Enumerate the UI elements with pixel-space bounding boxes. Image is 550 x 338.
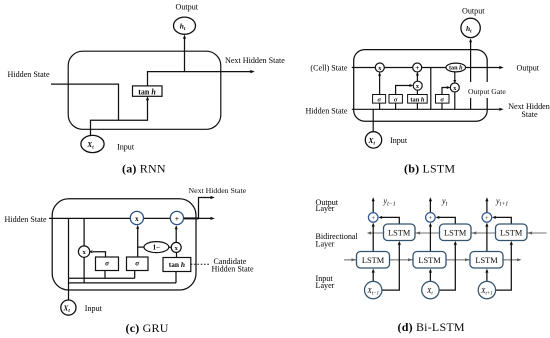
wire 1-minus to x cand (169, 246, 171, 248)
wire sigma2 to x mid (396, 86, 411, 95)
arrowhead into x reset (89, 250, 93, 253)
svg-text:+: + (485, 215, 489, 222)
arrowhead hidden out (211, 217, 215, 220)
svg-text:+: + (415, 64, 419, 72)
arrowhead into h_t (469, 38, 472, 42)
svg-text:σ: σ (377, 96, 381, 103)
svg-text:1−: 1− (153, 244, 161, 252)
wire hidden-state into box with down jog (51, 84, 119, 120)
wire sigma3 to x right (442, 88, 448, 95)
wire plus to output (372, 200, 374, 213)
arrowhead into plus (175, 225, 178, 229)
wire h_t tap (470, 41, 472, 109)
LSTM cell box (354, 50, 488, 122)
svg-text:x: x (135, 215, 139, 223)
svg-text:(c) GRU: (c) GRU (126, 321, 169, 335)
wire branch to 1-minus (138, 246, 145, 248)
X_t node (61, 300, 76, 315)
wire x right down (454, 92, 456, 110)
svg-text:Output: Output (176, 2, 199, 11)
svg-text:Input: Input (117, 142, 135, 151)
text mask (466, 82, 505, 98)
GRU cell box (52, 199, 196, 290)
wire x cand up to plus (175, 227, 177, 242)
svg-text:Layer: Layer (316, 204, 335, 213)
svg-text:Hidden State: Hidden State (8, 70, 50, 79)
svg-text:tan h: tan h (138, 88, 156, 97)
wire bus A up to sigma2 (134, 271, 136, 279)
wire bus B up to tanh (175, 272, 177, 283)
arrowhead into x mid (410, 84, 414, 87)
plus node 3 (482, 213, 492, 223)
arrowhead into h_t (183, 35, 186, 39)
x cand circle (171, 242, 181, 252)
arrowheads gray into backward boxes (416, 231, 420, 234)
wire backward LSTM to plus (381, 217, 400, 224)
tanh ellipse gate (446, 63, 466, 72)
wire bus A up to sigma1 (104, 271, 106, 279)
X_t node (422, 281, 439, 298)
arrowheads gray into forward boxes (352, 258, 356, 261)
svg-text:(a) RNN: (a) RNN (122, 161, 166, 175)
svg-text:Input: Input (85, 304, 103, 313)
wire x reset down to bus B (83, 257, 85, 283)
arrowhead into tanh (146, 96, 149, 100)
forward layer line (gray) (344, 259, 519, 261)
X_{t+1} node (478, 281, 495, 298)
wire hidden state line (352, 108, 501, 110)
wire X_t input (372, 109, 374, 131)
arrowhead next hidden (499, 108, 503, 111)
wire thick output segment (184, 217, 200, 219)
forward LSTM box 2 (413, 252, 446, 269)
arrowhead into plus (416, 72, 419, 76)
wire x mid to plus (416, 74, 418, 81)
arrowhead next hidden (211, 196, 215, 199)
arrowhead into x update (136, 225, 139, 229)
wire X to forward LSTM (486, 271, 488, 281)
wire sigma1 to x reset (93, 252, 106, 257)
wire cell state line (352, 67, 501, 69)
wire sigma1 down (379, 103, 381, 109)
svg-text:tan h: tan h (449, 65, 463, 72)
svg-text:Layer: Layer (316, 240, 335, 249)
x reset circle (78, 246, 89, 257)
svg-text:LSTM: LSTM (388, 228, 411, 237)
svg-text:Hidden State: Hidden State (212, 265, 254, 274)
wire sigma2 up to x update (137, 227, 139, 258)
sigma2 box (389, 95, 402, 104)
svg-text:LSTM: LSTM (500, 228, 523, 237)
wire sigma3 down (441, 103, 443, 109)
wire bottom horizontal to tanh (91, 99, 148, 136)
h_t node (461, 18, 480, 37)
dashed candidate pointer (191, 263, 210, 265)
x update circle (blue) (130, 211, 143, 224)
arrowhead cell output (499, 66, 503, 69)
sigma1 box (373, 95, 386, 104)
wire tanh up to x cand (176, 252, 178, 257)
svg-text:Output: Output (462, 6, 485, 15)
plus node 2 (426, 213, 436, 223)
wire hidden tap to x reset (83, 218, 85, 246)
wire hidden state line (49, 217, 212, 219)
svg-text:Hidden State: Hidden State (305, 106, 347, 115)
wire bus B (69, 282, 177, 284)
svg-text:LSTM: LSTM (362, 256, 385, 265)
wire tanh ellipse to x right (454, 72, 456, 81)
wire bus A (69, 277, 135, 279)
backward LSTM box 3 (496, 224, 528, 241)
tanh box (408, 95, 428, 104)
svg-text:tan h: tan h (410, 96, 424, 103)
arrowhead down into x right (453, 80, 456, 83)
X_{t-1} node (365, 281, 382, 298)
wire X to forward LSTM (429, 271, 431, 281)
plus node 1 (368, 213, 378, 223)
x right circle (450, 83, 459, 92)
forward LSTM box 3 (470, 252, 503, 269)
sigma3 box (436, 95, 450, 104)
svg-text:+: + (175, 214, 179, 223)
sigma2 box (127, 257, 149, 271)
wire X branch to backward LSTM (439, 244, 455, 291)
svg-text:Layer: Layer (316, 281, 335, 290)
svg-text:Output Gate: Output Gate (468, 87, 506, 96)
wire sigma2 down (395, 103, 397, 109)
wire next hidden branch (199, 198, 213, 219)
wire X to forward LSTM (372, 271, 374, 281)
wire plus to output (486, 200, 488, 213)
svg-text:(d) Bi-LSTM: (d) Bi-LSTM (398, 320, 465, 334)
sigma1 box (96, 257, 119, 271)
svg-text:Hidden State: Hidden State (5, 215, 47, 224)
wire to h_t output (184, 38, 186, 72)
arrowhead forward end (517, 258, 521, 261)
svg-text:tan h: tan h (169, 260, 185, 269)
one-minus ellipse (144, 242, 169, 253)
wire forward LSTM to plus (372, 225, 374, 252)
svg-text:(Cell) State: (Cell) State (310, 64, 347, 73)
RNN cell box (68, 51, 221, 129)
svg-text:+: + (371, 215, 375, 222)
x mid circle (413, 81, 422, 90)
X_t node (365, 132, 381, 148)
wire X branch to backward LSTM (382, 244, 399, 291)
svg-text:LSTM: LSTM (418, 256, 441, 265)
arrowhead next hidden state (250, 70, 255, 73)
wire X_t up to hidden line (68, 218, 70, 300)
svg-text:State: State (521, 110, 538, 119)
arrowhead into x right (447, 86, 451, 89)
wire X branch to backward LSTM (496, 244, 512, 291)
x gate circle (375, 63, 384, 72)
arrowhead backward end (367, 231, 371, 234)
wire tanh output up and right (148, 72, 252, 87)
wire sigma1 to x gate (379, 75, 381, 95)
svg-text:LSTM: LSTM (444, 228, 467, 237)
wire forward LSTM to plus (429, 225, 431, 252)
arrowhead into x gate (378, 72, 381, 76)
wire vertical mid divider (430, 68, 432, 110)
backward LSTM box 1 (384, 224, 416, 241)
svg-text:Input: Input (390, 136, 408, 145)
forward LSTM box 1 (357, 252, 390, 269)
wire tanhbox to x mid (416, 90, 418, 95)
backward LSTM box 2 (440, 224, 472, 241)
plus gate circle (413, 63, 422, 72)
tanh box (163, 258, 191, 272)
wire backward LSTM to plus (438, 217, 456, 224)
wire forward LSTM to plus (486, 225, 488, 252)
backward layer line (gray) (369, 232, 547, 234)
svg-text:Next Hidden State: Next Hidden State (225, 56, 285, 65)
h_t node (174, 17, 196, 34)
svg-text:σ: σ (440, 96, 444, 103)
svg-text:(b) LSTM: (b) LSTM (404, 161, 455, 175)
svg-text:σ: σ (394, 96, 398, 103)
wire backward LSTM to plus (494, 217, 511, 224)
svg-text:+: + (429, 215, 433, 222)
svg-text:Output: Output (517, 63, 540, 72)
svg-text:Next Hidden State: Next Hidden State (189, 186, 247, 195)
wire plus to output (429, 200, 431, 213)
tanh box (133, 86, 163, 96)
X_t node (81, 135, 104, 152)
plus circle (blue) (170, 211, 183, 224)
svg-text:LSTM: LSTM (475, 256, 498, 265)
wire tanhbox down (416, 103, 418, 109)
